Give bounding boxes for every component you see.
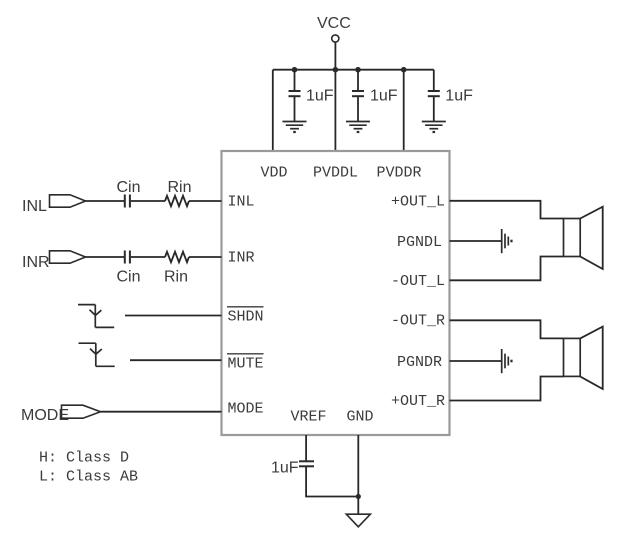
ground (signal triangle) [346,514,370,527]
VCC terminal circle [332,35,339,42]
svg-text:1uF: 1uF [306,88,334,105]
capacitor C2 1uF [352,70,364,121]
svg-text:-OUT_L: -OUT_L [391,273,445,290]
svg-text:1uF: 1uF [271,460,299,477]
svg-text:-OUT_R: -OUT_R [391,313,445,330]
connector INR [50,251,86,263]
speaker SP1 horn [580,207,603,269]
speaker SP1 box [564,219,581,257]
svg-text:VDD: VDD [261,165,288,182]
svg-text:GND: GND [347,409,374,426]
speaker SP2 box [564,338,581,376]
svg-text:MODE: MODE [228,401,264,418]
wire SHDN [125,315,222,317]
svg-text:H: Class D: H: Class D [39,450,129,467]
wire INR to Cin [86,256,125,258]
svg-text:VCC: VCC [317,15,351,32]
wire MUTE [130,359,222,361]
wire PVDDR feed [403,70,405,151]
wire VCC vertical feed to PVDDL [334,42,336,151]
svg-text:Rin: Rin [164,269,188,286]
svg-text:1uF: 1uF [370,88,398,105]
capacitor C3 1uF [428,70,440,121]
resistor Rin (INL) [165,196,189,206]
wire INL to Cin [86,200,125,202]
wire Rin to pin INL [189,200,222,202]
wire VREF down [305,435,307,461]
junction dot bus VCC [333,67,339,73]
wire -OUT_L to speaker [450,257,564,281]
svg-text:PVDDR: PVDDR [377,165,422,182]
svg-text:SHDN: SHDN [228,309,264,326]
capacitor C4 1uF (VREF) [299,461,314,466]
svg-text:1uF: 1uF [445,88,473,105]
svg-text:PGNDL: PGNDL [397,234,442,251]
svg-text:VREF: VREF [291,409,327,426]
junction dot bus cap1 [292,67,298,73]
ground (C1) [283,122,307,133]
capacitor Cin (INL) [125,195,130,208]
svg-text:INR: INR [22,254,50,271]
svg-text:INL: INL [22,198,47,215]
junction dot bus cap2 [355,67,361,73]
wire Rin to pin INR [189,256,222,258]
connector INL [50,195,86,207]
wire supply bus horizontal [273,69,434,71]
svg-text:PGNDR: PGNDR [397,354,442,371]
ground (C3) [422,122,446,133]
wire -OUT_R to speaker [450,320,564,338]
svg-text:PVDDL: PVDDL [313,165,358,182]
svg-text:Cin: Cin [117,179,141,196]
wire +OUT_L to speaker [450,201,564,219]
ground (PGNDL, rotated) [502,229,512,253]
capacitor C1 1uF [289,70,301,121]
ground (C2) [346,122,370,133]
pin label SHDN (overline) [227,306,264,308]
wire +OUT_R to speaker [450,377,564,401]
wire PGNDR [450,360,502,362]
speaker SP2 horn [580,327,603,389]
svg-text:INR: INR [228,250,255,267]
junction dot bus PVDDR [401,67,407,73]
logic step source (SHDN) [78,305,114,328]
svg-text:+OUT_R: +OUT_R [391,393,445,410]
wire VDD feed [272,70,274,151]
junction dot GND net [356,494,361,499]
ground (PGNDR, rotated) [502,349,512,373]
svg-text:Cin: Cin [117,269,141,286]
op-amp U1 amplifier IC body [222,151,450,435]
logic step source (MUTE) [79,343,115,366]
svg-text:L: Class AB: L: Class AB [39,469,138,486]
wire MODE [101,411,222,413]
svg-text:Rin: Rin [168,179,192,196]
capacitor Cin (INR) [125,251,130,264]
wire Cin to Rin (INR) [131,256,165,258]
svg-text:MUTE: MUTE [228,356,264,373]
connector MODE [62,405,101,418]
svg-text:+OUT_L: +OUT_L [391,194,445,211]
wire Cin to Rin (INL) [131,200,165,202]
pin label MUTE (overline) [227,353,264,355]
resistor Rin (INR) [165,252,189,262]
wire GND down [357,435,359,514]
wire PGNDL [450,240,502,242]
svg-text:INL: INL [228,194,255,211]
wire C4 to GND net [306,467,358,497]
